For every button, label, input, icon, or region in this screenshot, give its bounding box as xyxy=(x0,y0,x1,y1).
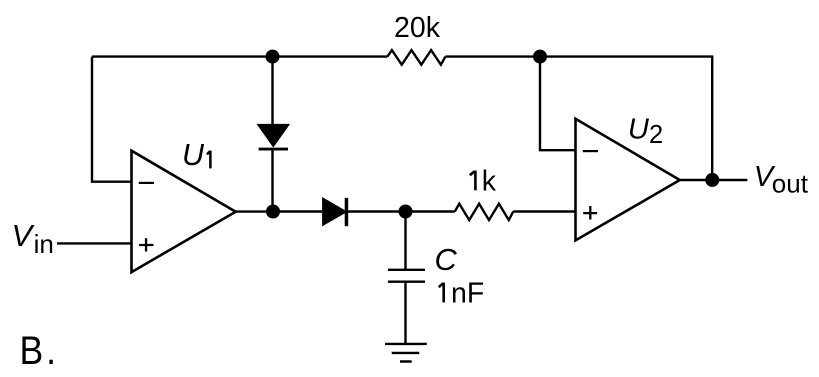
label Vout xyxy=(754,161,809,199)
svg-text:k: k xyxy=(482,165,497,197)
wire node top to diode D1 xyxy=(271,57,273,124)
label 20k xyxy=(394,12,441,44)
wire capacitor to ground xyxy=(404,282,406,344)
resistor R-1k body xyxy=(455,204,514,220)
wire D2 cathode to node B xyxy=(347,210,455,212)
label 1k xyxy=(470,165,497,197)
U2 minus pin label xyxy=(583,150,598,152)
svg-text:B.: B. xyxy=(20,328,59,372)
wire Vout node feedback up to top rail xyxy=(711,57,713,180)
wire U1 output to node A xyxy=(236,210,273,212)
wire node A to diode D2 xyxy=(273,210,322,212)
op-amp U1 xyxy=(132,151,236,272)
node B (405,211) xyxy=(399,205,413,219)
svg-text:out: out xyxy=(772,169,809,199)
wire Vin input xyxy=(57,242,132,244)
wire D1 cathode to node A xyxy=(271,149,273,212)
U1 minus pin label xyxy=(139,182,154,184)
label 1nF xyxy=(439,277,484,309)
svg-text:20k: 20k xyxy=(394,12,441,44)
wire R-1k to U2 non-inverting input xyxy=(513,210,575,212)
label Vin xyxy=(12,218,54,259)
svg-text:U: U xyxy=(182,138,205,172)
label B. xyxy=(20,328,59,372)
ground xyxy=(385,344,427,362)
wire U2 inverting input to top rail node xyxy=(540,57,576,151)
wire U2 output to Vout xyxy=(680,179,748,181)
label U2 xyxy=(628,113,663,149)
resistor R-20k body xyxy=(387,50,445,65)
node junction top-right (540,57) xyxy=(533,50,547,64)
diode D1 (vertical, pointing down) xyxy=(259,125,288,149)
op-amp U2 xyxy=(576,119,680,241)
svg-text:nF: nF xyxy=(451,277,484,309)
svg-text:2: 2 xyxy=(649,121,663,149)
diode D2 (horizontal, pointing right) xyxy=(323,198,346,226)
node Vout (712,180) xyxy=(705,173,719,187)
node A (273,211) xyxy=(266,205,280,219)
U2 plus pin label xyxy=(583,206,597,220)
wire top feedback rail xyxy=(92,55,713,57)
svg-text:U: U xyxy=(628,113,650,145)
svg-text:in: in xyxy=(34,229,54,259)
wire node B down to capacitor C xyxy=(404,212,406,270)
wire left feedback to U1 inverting input xyxy=(92,57,132,182)
U1 plus pin label xyxy=(139,238,153,251)
svg-text:C: C xyxy=(435,242,458,277)
label C xyxy=(435,242,458,277)
label U1 xyxy=(182,138,210,172)
node junction top-left (273,57) xyxy=(266,50,280,64)
capacitor C plates xyxy=(388,270,425,282)
svg-text:V: V xyxy=(12,218,36,253)
